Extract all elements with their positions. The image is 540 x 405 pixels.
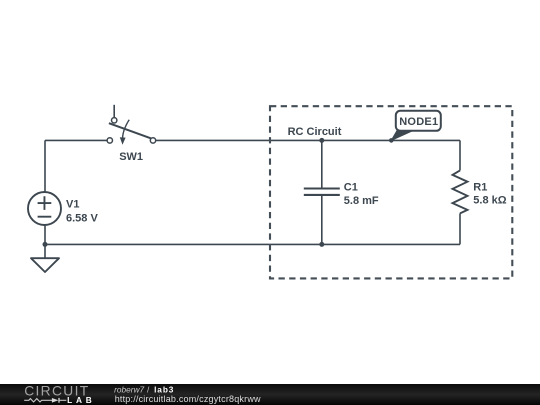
wire top-left horizontal from V1 to SW1 left terminal <box>45 139 107 141</box>
wire top rail SW1 right terminal to right corner <box>156 139 460 141</box>
logo waveform resistor <box>24 399 52 402</box>
wire right side vertical to resistor <box>459 140 461 170</box>
NODE1 callout pointer <box>391 130 412 141</box>
svg-text:5.8 kΩ: 5.8 kΩ <box>473 195 506 207</box>
SW1 terminal right <box>150 138 155 143</box>
svg-text:roberw7: roberw7 <box>114 385 144 395</box>
svg-text:C1: C1 <box>344 182 358 194</box>
switch actuation arrow <box>123 120 130 139</box>
node NODE1 dot <box>389 138 394 143</box>
wire ground lead <box>44 244 46 258</box>
svg-text:lab3: lab3 <box>154 385 174 395</box>
SW1 terminal top <box>112 118 117 123</box>
logo arrow diode <box>52 398 59 403</box>
wire V1 bottom vertical <box>44 225 46 244</box>
svg-text:5.8 mF: 5.8 mF <box>344 195 379 207</box>
svg-text:6.58 V: 6.58 V <box>66 213 98 225</box>
NODE1 callout box <box>396 111 441 131</box>
svg-text:SW1: SW1 <box>119 151 143 163</box>
svg-text:R1: R1 <box>473 182 487 194</box>
svg-text:V1: V1 <box>66 199 79 211</box>
switch blade <box>109 123 151 138</box>
node junction capacitor top <box>319 138 324 143</box>
node junction capacitor bottom <box>319 242 324 247</box>
footer bar <box>0 384 540 405</box>
svg-text:LAB: LAB <box>67 395 95 405</box>
SW1 terminal left <box>107 138 112 143</box>
switch SW1 <box>107 105 156 145</box>
svg-text:RC Circuit: RC Circuit <box>288 126 342 138</box>
svg-text:NODE1: NODE1 <box>399 116 438 128</box>
wire bottom rail <box>45 243 460 245</box>
voltage source V1 <box>28 192 61 225</box>
svg-text:http://circuitlab.com/czgytcr8: http://circuitlab.com/czgytcr8qkrww <box>115 394 261 404</box>
wire V1 top vertical <box>44 140 46 192</box>
wire SW1 top stub <box>113 105 115 118</box>
node junction at V1 bottom <box>43 242 48 247</box>
capacitor C1 <box>304 140 340 244</box>
wire resistor bottom to bottom rail <box>459 213 461 244</box>
resistor R1 zigzag <box>453 170 468 213</box>
dashed box RC Circuit enclosure <box>270 106 512 278</box>
ground <box>31 258 59 272</box>
